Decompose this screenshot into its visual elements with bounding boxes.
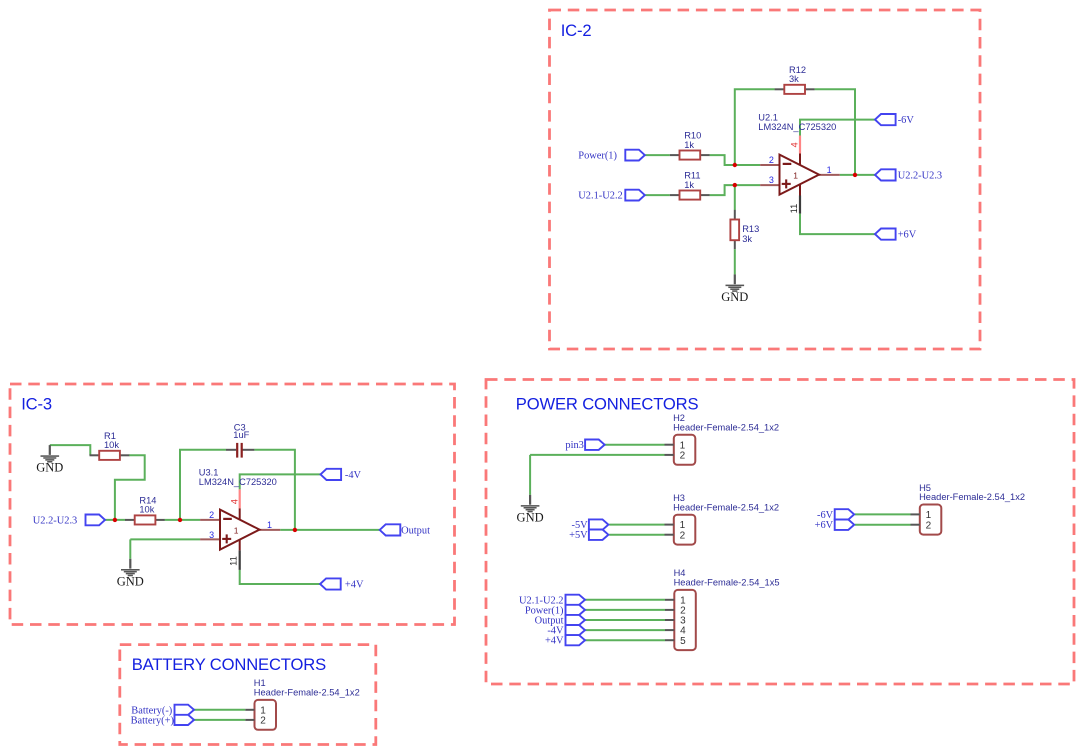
svg-text:U2.1: U2.1 bbox=[758, 112, 778, 122]
svg-text:1: 1 bbox=[827, 165, 832, 175]
svg-text:1k: 1k bbox=[684, 180, 694, 190]
svg-text:IC-3: IC-3 bbox=[21, 395, 52, 414]
svg-text:1: 1 bbox=[234, 526, 239, 536]
svg-text:Output: Output bbox=[401, 525, 430, 536]
svg-text:3k: 3k bbox=[742, 234, 752, 244]
svg-text:U2.1-U2.2: U2.1-U2.2 bbox=[578, 191, 622, 202]
svg-text:Header-Female-2.54_1x2: Header-Female-2.54_1x2 bbox=[919, 492, 1025, 502]
svg-text:Power(1): Power(1) bbox=[578, 151, 617, 162]
svg-text:11: 11 bbox=[229, 556, 239, 566]
svg-text:R13: R13 bbox=[742, 224, 759, 234]
svg-text:+6V: +6V bbox=[815, 520, 834, 531]
svg-text:LM324N_C725320: LM324N_C725320 bbox=[758, 122, 836, 132]
svg-text:5: 5 bbox=[680, 636, 686, 647]
svg-text:10k: 10k bbox=[139, 505, 154, 515]
svg-text:LM324N_C725320: LM324N_C725320 bbox=[199, 477, 277, 487]
svg-text:2: 2 bbox=[680, 530, 686, 541]
svg-text:Header-Female-2.54_1x2: Header-Female-2.54_1x2 bbox=[673, 422, 779, 432]
svg-text:POWER CONNECTORS: POWER CONNECTORS bbox=[516, 395, 699, 414]
svg-text:2: 2 bbox=[680, 451, 686, 462]
svg-text:GND: GND bbox=[517, 511, 544, 525]
svg-text:4: 4 bbox=[790, 142, 800, 147]
svg-text:11: 11 bbox=[789, 204, 799, 214]
svg-text:Header-Female-2.54_1x2: Header-Female-2.54_1x2 bbox=[673, 502, 779, 512]
svg-text:GND: GND bbox=[36, 461, 63, 475]
svg-text:GND: GND bbox=[721, 290, 748, 304]
svg-text:+4V: +4V bbox=[345, 580, 364, 591]
svg-text:10k: 10k bbox=[104, 440, 119, 450]
svg-text:-6V: -6V bbox=[898, 115, 915, 126]
svg-text:2: 2 bbox=[926, 520, 932, 531]
svg-text:Battery(+): Battery(+) bbox=[131, 715, 174, 726]
svg-text:BATTERY CONNECTORS: BATTERY CONNECTORS bbox=[132, 655, 326, 674]
svg-text:4: 4 bbox=[229, 499, 239, 504]
svg-text:GND: GND bbox=[117, 574, 144, 588]
svg-text:1k: 1k bbox=[684, 140, 694, 150]
svg-text:+5V: +5V bbox=[569, 530, 588, 541]
svg-text:U2.2-U2.3: U2.2-U2.3 bbox=[33, 515, 77, 526]
svg-text:3: 3 bbox=[769, 175, 774, 185]
svg-text:U2.2-U2.3: U2.2-U2.3 bbox=[898, 170, 942, 181]
svg-text:pin3: pin3 bbox=[565, 440, 583, 451]
svg-text:Header-Female-2.54_1x5: Header-Female-2.54_1x5 bbox=[674, 578, 780, 588]
svg-text:1: 1 bbox=[793, 171, 798, 181]
svg-text:+4V: +4V bbox=[545, 636, 564, 647]
svg-text:3k: 3k bbox=[789, 74, 799, 84]
svg-text:1: 1 bbox=[267, 520, 272, 530]
svg-text:Header-Female-2.54_1x2: Header-Female-2.54_1x2 bbox=[254, 688, 360, 698]
svg-text:1uF: 1uF bbox=[233, 430, 249, 440]
svg-text:+6V: +6V bbox=[898, 230, 917, 241]
svg-text:-4V: -4V bbox=[345, 470, 362, 481]
svg-text:U3.1: U3.1 bbox=[199, 467, 219, 477]
svg-text:2: 2 bbox=[209, 510, 214, 520]
svg-text:2: 2 bbox=[260, 716, 266, 727]
svg-text:2: 2 bbox=[769, 155, 774, 165]
svg-text:3: 3 bbox=[209, 530, 214, 540]
svg-text:IC-2: IC-2 bbox=[561, 21, 592, 40]
